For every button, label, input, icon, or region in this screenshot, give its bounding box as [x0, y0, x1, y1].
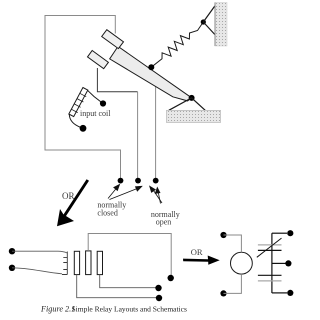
coil top lead [12, 251, 67, 253]
ground block bottom [167, 110, 221, 122]
wall block right [215, 3, 227, 47]
arrow closed to dot2 [110, 188, 139, 200]
coil bottom lead [12, 268, 62, 274]
coil hooks [62, 252, 67, 275]
mid right terminal [272, 262, 286, 264]
thin arrows [108, 185, 162, 204]
svg-text:Figure 2.1: Figure 2.1 [40, 305, 75, 314]
wire from armature [155, 86, 157, 178]
top right terminal [272, 232, 287, 234]
pivot dot [189, 95, 195, 101]
NC slash [257, 238, 282, 257]
wire bar3 bottom [100, 275, 156, 288]
svg-text:closed: closed [97, 209, 117, 218]
svg-text:OR: OR [191, 247, 203, 257]
coil circle [231, 252, 253, 274]
spring attach dot [148, 64, 154, 70]
svg-text:input coil: input coil [80, 109, 111, 118]
coil lead lower [69, 115, 81, 128]
spring [151, 22, 203, 67]
svg-text:OR: OR [62, 191, 75, 201]
anchor dot [201, 19, 206, 24]
contact bus vertical [271, 233, 273, 293]
wire from lower contact [97, 68, 137, 92]
contact lower [88, 51, 109, 69]
pivot legs [169, 98, 205, 110]
terminal dot NO arm [156, 295, 162, 301]
wire bar2 top loop [88, 234, 171, 276]
junction dot switch common [168, 275, 174, 281]
wall left edge [214, 3, 216, 47]
left schematic: terminal dots [9, 248, 15, 254]
arrow open to dot2 [153, 189, 163, 203]
input coil body [69, 88, 88, 117]
anchor triangle [203, 6, 215, 35]
contact upper [102, 30, 124, 49]
big arrow down-left [57, 179, 89, 226]
armature bar [110, 46, 192, 101]
bottom-left dot + wire [220, 290, 226, 296]
NO contact plates [258, 274, 282, 276]
svg-text:open: open [156, 217, 172, 226]
core bar 1 [74, 251, 79, 274]
coil rungs [71, 93, 86, 112]
terminal dots row [118, 178, 124, 184]
coil terminal dots [100, 100, 106, 106]
NC contact plates [258, 244, 282, 246]
core bar 3 [97, 251, 102, 274]
top-left dot + wire [220, 232, 226, 238]
bottom right terminal [272, 292, 287, 294]
big arrow right [183, 256, 220, 265]
wire outer loop [45, 16, 121, 179]
wire bar1 bottom [77, 275, 156, 298]
core bar 2 [86, 251, 91, 275]
wire middle drop [137, 92, 139, 178]
svg-text:Simple Relay Layouts and Schem: Simple Relay Layouts and Schematics [72, 305, 187, 314]
arrow closed to dot1 [108, 188, 117, 199]
coil lead upper [88, 90, 104, 103]
terminal dot NC arm [155, 285, 161, 291]
arrow open to dot3 [158, 191, 161, 204]
